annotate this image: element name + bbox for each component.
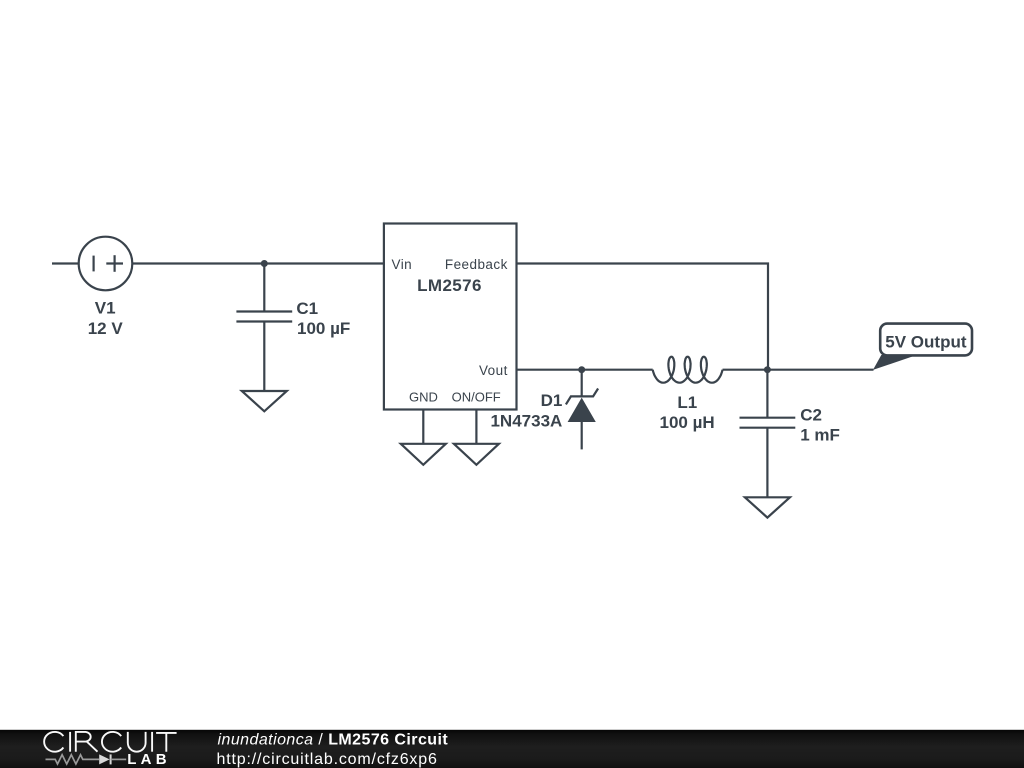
svg-text:inundationca / LM2576 Circuit: inundationca / LM2576 Circuit: [218, 732, 449, 749]
svg-text:LM2576: LM2576: [417, 276, 482, 295]
svg-text:C2: C2: [800, 406, 822, 425]
wire V1 to LM2576 Vin: [132, 262, 384, 264]
node junction at C1: [261, 260, 268, 267]
svg-text:12 V: 12 V: [88, 319, 124, 338]
svg-text:100 µH: 100 µH: [660, 413, 715, 432]
wire ON/OFF pin: [475, 410, 477, 444]
ground below ON/OFF pin: [454, 444, 499, 465]
svg-text:5V Output: 5V Output: [885, 332, 967, 351]
wire GND pin: [422, 410, 424, 444]
logo CIRCUIT letters: [44, 732, 176, 752]
wire Feedback to output node: [517, 264, 769, 370]
node junction at C2: [764, 366, 771, 373]
svg-text:Vin: Vin: [392, 257, 413, 272]
svg-text:L1: L1: [677, 393, 697, 412]
svg-text:100 µF: 100 µF: [297, 319, 350, 338]
node junction at D1: [578, 366, 585, 373]
inductor L1 coil: [653, 357, 723, 383]
svg-text:LAB: LAB: [127, 751, 170, 768]
capacitor C1: [236, 264, 292, 392]
svg-text:Feedback: Feedback: [445, 257, 508, 272]
svg-text:http://circuitlab.com/cfz6xp6: http://circuitlab.com/cfz6xp6: [217, 751, 438, 768]
logo diode symbol: [99, 754, 109, 764]
flag 5V Output box: [880, 324, 972, 356]
diode D1 zener 1N4733A: [566, 370, 598, 450]
logo resistor zigzag: [46, 755, 100, 764]
svg-text:ON/OFF: ON/OFF: [452, 390, 501, 405]
svg-text:GND: GND: [409, 390, 438, 405]
footer bar: [0, 730, 1024, 768]
flag 5V Output pointer tail: [873, 355, 917, 370]
svg-text:V1: V1: [95, 299, 116, 318]
ground below C1: [242, 391, 287, 411]
voltage source V1: [79, 237, 133, 291]
svg-text:C1: C1: [296, 299, 318, 318]
svg-text:Vout: Vout: [479, 363, 508, 378]
svg-text:1N4733A: 1N4733A: [490, 412, 562, 431]
ground below GND pin: [401, 444, 446, 465]
capacitor C2: [740, 370, 796, 498]
wire input stub left of V1: [52, 262, 79, 264]
svg-text:D1: D1: [541, 391, 563, 410]
IC LM2576 body: [384, 224, 517, 410]
ground below C2: [745, 497, 790, 517]
wire inductor to output flag: [723, 369, 874, 371]
wire Vout to inductor: [517, 369, 653, 371]
svg-text:1 mF: 1 mF: [800, 425, 840, 444]
